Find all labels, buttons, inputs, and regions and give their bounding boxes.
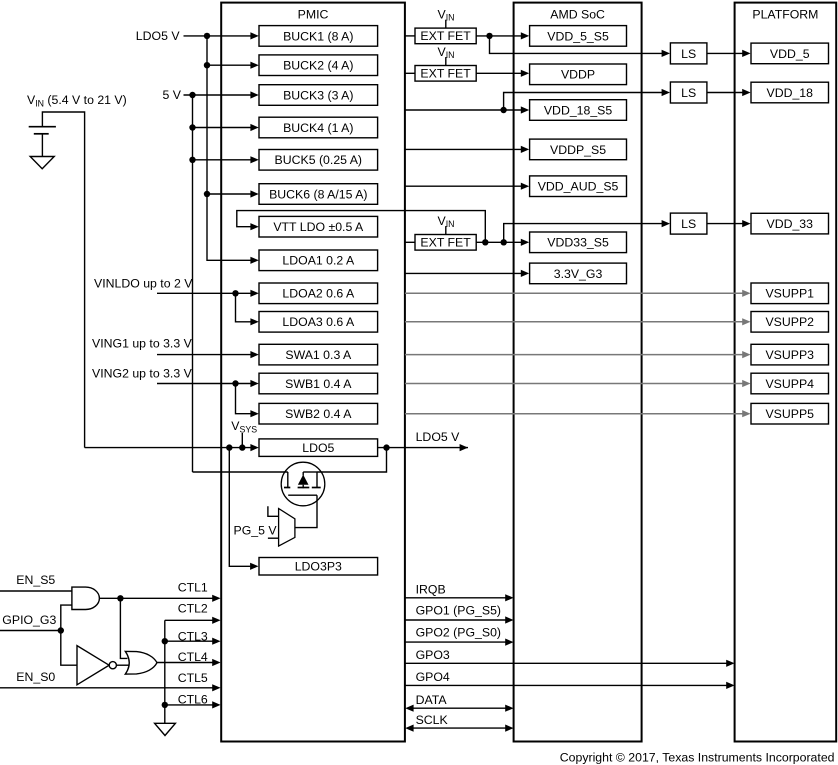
wire DATA bidirectional bbox=[413, 707, 505, 709]
regulator BUCK5 bbox=[259, 150, 378, 171]
svg-text:IRQB: IRQB bbox=[416, 583, 446, 597]
rail VDD_33 bbox=[751, 213, 829, 234]
wire rail to CTL6 bbox=[165, 704, 213, 706]
svg-text:VTT LDO ±0.5 A: VTT LDO ±0.5 A bbox=[273, 220, 364, 234]
wire EN_S0 to CTL5 bbox=[0, 687, 213, 689]
svg-text:BUCK2 (4 A): BUCK2 (4 A) bbox=[283, 59, 353, 73]
junction AND output bbox=[117, 595, 123, 601]
arrow DATA into PMIC bbox=[405, 705, 413, 712]
junction rail at CTL6 bbox=[162, 702, 168, 708]
wire OR output to CTL4 bbox=[157, 662, 213, 664]
wire VINLDO branch to LDOA3 bbox=[236, 293, 251, 322]
arrow into BUCK5 bbox=[250, 156, 258, 163]
regulator BUCK6 bbox=[259, 184, 378, 205]
wire VSUPP4 (gray) bbox=[405, 383, 743, 385]
battery negative plate bbox=[34, 133, 49, 135]
wire bus to BUCK5 bbox=[193, 159, 251, 161]
svg-text:VINLDO up to 2 V: VINLDO up to 2 V bbox=[94, 277, 193, 291]
svg-text:CTL4: CTL4 bbox=[178, 650, 208, 664]
wire VINLDO to LDOA2 bbox=[157, 292, 251, 294]
arrow into VSUPP2 (gray) bbox=[742, 318, 750, 325]
junction LDO5V bus at BUCK6 bbox=[204, 191, 210, 197]
svg-text:VSUPP2: VSUPP2 bbox=[765, 315, 814, 329]
wire GPO1 to AMD SoC bbox=[405, 619, 506, 621]
regulator LDOA2 bbox=[259, 283, 378, 304]
arrow into LDO3P3 bbox=[250, 563, 258, 570]
wire VIN stub to EXT FET 2 bbox=[445, 57, 447, 65]
junction VDD_18 branch bbox=[500, 107, 506, 113]
battery positive plate bbox=[29, 126, 56, 128]
svg-text:VDDP: VDDP bbox=[561, 68, 595, 82]
regulator LDO3P3 bbox=[259, 558, 378, 576]
arrow into LDO5 bbox=[250, 444, 258, 451]
svg-text:GPIO_G3: GPIO_G3 bbox=[2, 613, 56, 627]
arrow into VTT LDO bbox=[250, 223, 258, 230]
arrow into VSUPP3 (gray) bbox=[742, 351, 750, 358]
wire VSYS stub bbox=[241, 433, 243, 448]
wire VIN stub to EXT FET 3 bbox=[445, 226, 447, 234]
svg-text:SCLK: SCLK bbox=[416, 713, 449, 727]
wire GPIO_G3 input bbox=[0, 630, 61, 632]
junction EXT FET 3 output (VTT loop) bbox=[482, 239, 488, 245]
junction LDO5V bus top bbox=[204, 33, 210, 39]
wire VING1 to SWA1 bbox=[157, 354, 251, 356]
wire LS1 to VDD_5 bbox=[707, 52, 743, 54]
svg-text:LDOA3 0.6 A: LDOA3 0.6 A bbox=[282, 315, 355, 329]
arrow into VDD_33 bbox=[742, 220, 750, 227]
svg-text:PMIC: PMIC bbox=[298, 8, 329, 22]
arrow into VDD33_S5 bbox=[521, 239, 529, 246]
svg-text:BUCK4 (1 A): BUCK4 (1 A) bbox=[283, 121, 353, 135]
svg-text:VDD_5: VDD_5 bbox=[770, 47, 810, 61]
junction 5V bus at BUCK4 bbox=[189, 124, 195, 130]
wire VSUPP1 (gray) bbox=[405, 292, 743, 294]
svg-text:VDD_AUD_S5: VDD_AUD_S5 bbox=[538, 180, 619, 194]
arrow into LS2 bbox=[662, 89, 670, 96]
transistor Q1 body-diode arrow bbox=[298, 475, 309, 485]
svg-text:SWA1 0.3 A: SWA1 0.3 A bbox=[285, 348, 352, 362]
wire VSUPP3 (gray) bbox=[405, 354, 743, 356]
arrow GPO4 into PLATFORM bbox=[726, 682, 734, 689]
junction VINLDO branch bbox=[232, 290, 238, 296]
regulator VTT bbox=[259, 216, 378, 237]
svg-text:SWB2 0.4 A: SWB2 0.4 A bbox=[285, 407, 352, 421]
svg-text:LDO5 V: LDO5 V bbox=[136, 29, 181, 43]
level-shifter LS2 bbox=[670, 82, 707, 103]
regulator BUCK3 bbox=[259, 85, 378, 106]
wire VDD_AUD_S5 row bbox=[405, 185, 521, 187]
arrow DATA into AMD SoC bbox=[505, 705, 513, 712]
wire VSUPP2 (gray) bbox=[405, 321, 743, 323]
svg-text:CTL6: CTL6 bbox=[178, 692, 208, 706]
wire EXT FET 1 to VDD_5_S5 bbox=[476, 35, 521, 37]
junction LDO5 row to LDO3P3 feed bbox=[226, 444, 232, 450]
arrow CTL5 into PMIC bbox=[212, 684, 220, 691]
wire IRQB to AMD SoC bbox=[405, 597, 506, 599]
rail VDD_18_S5 bbox=[530, 100, 627, 121]
wire 3.3V_G3 row bbox=[405, 272, 521, 274]
svg-text:VSUPP5: VSUPP5 bbox=[765, 407, 814, 421]
wire SCLK bidirectional bbox=[413, 727, 505, 729]
svg-text:CTL5: CTL5 bbox=[178, 671, 208, 685]
junction EXT FET 3 output (LS3) bbox=[501, 239, 507, 245]
svg-text:GPO2 (PG_S0): GPO2 (PG_S0) bbox=[416, 626, 501, 640]
rail VDD_5 bbox=[751, 43, 829, 64]
arrow CTL4 into PMIC bbox=[212, 659, 220, 666]
wire EXT FET 2 to VDDP bbox=[476, 72, 521, 74]
regulator BUCK4 bbox=[259, 117, 378, 138]
wire LS2 to VDD_18 bbox=[707, 92, 743, 94]
wire bus to BUCK4 bbox=[193, 127, 251, 129]
wire rail to CTL2 bbox=[165, 619, 213, 621]
driver U1 PG_5V trapezoid bbox=[279, 509, 295, 547]
wire VIN feed into LDO5 bbox=[85, 447, 251, 449]
svg-text:GPO1 (PG_S5): GPO1 (PG_S5) bbox=[416, 604, 501, 618]
rail VDDP bbox=[530, 64, 627, 85]
not-gate U3 bubble bbox=[109, 662, 116, 669]
wire branch to LS2 bbox=[504, 93, 662, 111]
svg-text:LS: LS bbox=[681, 86, 696, 100]
arrow into LDOA1 bbox=[250, 257, 258, 264]
ground (VIN source) bbox=[30, 157, 54, 169]
arrow GPO2 into AMD SoC bbox=[505, 639, 513, 646]
wire GPIO_G3 to NOT gate bbox=[61, 631, 77, 666]
arrow into VDD_18_S5 bbox=[521, 106, 529, 113]
not-gate U3 bbox=[77, 646, 109, 685]
svg-text:LDO5: LDO5 bbox=[302, 441, 334, 455]
wire LDO5V vertical bus x=207 bbox=[207, 36, 251, 260]
svg-text:VDD_5_S5: VDD_5_S5 bbox=[547, 29, 609, 43]
svg-text:Copyright © 2017, Texas Instru: Copyright © 2017, Texas Instruments Inco… bbox=[560, 751, 835, 765]
svg-text:BUCK6 (8 A/15 A): BUCK6 (8 A/15 A) bbox=[269, 187, 367, 201]
wire battery to ground bbox=[41, 134, 43, 157]
wire GPO4 to PLATFORM bbox=[405, 684, 727, 686]
svg-text:VDD_33: VDD_33 bbox=[767, 217, 814, 231]
regulator LDOA3 bbox=[259, 312, 378, 333]
arrow CTL6 into PMIC bbox=[212, 701, 220, 708]
rail 3.3V_G3 bbox=[530, 263, 627, 284]
arrow GPO3 into PLATFORM bbox=[726, 660, 734, 667]
svg-text:SWB1 0.4 A: SWB1 0.4 A bbox=[285, 377, 352, 391]
transistor Q1 channel segment right bbox=[312, 487, 321, 489]
arrow into VSUPP4 (gray) bbox=[742, 380, 750, 387]
wire LDO5 V to BUCK1 bbox=[184, 35, 251, 37]
wire rail to CTL3 bbox=[165, 640, 213, 642]
svg-text:GPO4: GPO4 bbox=[416, 670, 450, 684]
rail VDDP_S5 bbox=[530, 139, 627, 160]
wire VIN source to vertical feed bbox=[42, 112, 84, 448]
svg-text:BUCK3 (3 A): BUCK3 (3 A) bbox=[283, 88, 353, 102]
wire bus to BUCK6 bbox=[207, 193, 251, 195]
arrow CTL1 into PMIC bbox=[212, 595, 220, 602]
arrow into VSUPP5 (gray) bbox=[742, 410, 750, 417]
arrow into VDDP bbox=[521, 70, 529, 77]
arrow into 3.3V_G3 bbox=[521, 270, 529, 277]
junction VSYS stub bbox=[239, 444, 245, 450]
transistor Q1 left contact bar bbox=[287, 472, 289, 488]
svg-text:LDOA2 0.6 A: LDOA2 0.6 A bbox=[282, 287, 355, 301]
arrow CTL3 into PMIC bbox=[212, 638, 220, 645]
and-gate U2 bbox=[72, 587, 100, 609]
arrow into LS3 bbox=[662, 220, 670, 227]
arrow into LS1 bbox=[662, 50, 670, 57]
transistor Q1 channel segment middle bbox=[298, 487, 310, 489]
svg-text:LDO5 V: LDO5 V bbox=[416, 430, 461, 444]
transistor Q1 channel segment left bbox=[284, 487, 290, 489]
wire EN_S5 to AND gate bbox=[0, 590, 72, 592]
wire pulldown rail x=164.8 bbox=[164, 620, 166, 723]
svg-text:VDD33_S5: VDD33_S5 bbox=[547, 236, 609, 250]
wire pass FET to 5V bus bbox=[193, 471, 288, 473]
svg-text:CTL2: CTL2 bbox=[178, 602, 208, 616]
regulator BUCK1 bbox=[259, 26, 378, 47]
svg-text:GPO3: GPO3 bbox=[416, 648, 450, 662]
rail VSUPP3 bbox=[751, 344, 829, 365]
block AMD SoC bbox=[514, 3, 642, 742]
arrow CTL2 into PMIC bbox=[212, 617, 220, 624]
svg-text:VDD_18: VDD_18 bbox=[767, 86, 814, 100]
arrow into VDDP_S5 bbox=[521, 146, 529, 153]
transistor Q1 body circle bbox=[281, 462, 325, 506]
rail VDD_5_S5 bbox=[530, 26, 627, 47]
svg-text:LS: LS bbox=[681, 217, 696, 231]
transistor Q1 top wire segment bbox=[303, 471, 317, 473]
svg-text:EN_S0: EN_S0 bbox=[16, 670, 55, 684]
rail VSUPP4 bbox=[751, 373, 829, 394]
wire VING2 branch to SWB2 bbox=[236, 384, 251, 414]
wire VING2 to SWB1 bbox=[157, 383, 251, 385]
rail VSUPP1 bbox=[751, 283, 829, 304]
wire EXT FET 3 to VDD33_S5 bbox=[476, 241, 521, 243]
regulator SWB1 bbox=[259, 373, 378, 394]
or-gate U4 bbox=[125, 651, 157, 674]
svg-text:CTL3: CTL3 bbox=[178, 629, 208, 643]
arrow into SWA1 bbox=[250, 351, 258, 358]
arrow into VDD_5_S5 bbox=[521, 32, 529, 39]
svg-text:PLATFORM: PLATFORM bbox=[752, 8, 818, 22]
arrow into BUCK6 bbox=[250, 190, 258, 197]
block PLATFORM bbox=[735, 3, 837, 742]
wire branch to LS1 bbox=[490, 36, 663, 54]
arrow into BUCK2 bbox=[250, 62, 258, 69]
ext-fet box EXT FET 1 bbox=[415, 28, 476, 44]
svg-text:EXT FET: EXT FET bbox=[420, 29, 471, 43]
wire VDDP_S5 row bbox=[405, 148, 521, 150]
arrow into VSUPP1 (gray) bbox=[742, 290, 750, 297]
arrow into VDD_AUD_S5 bbox=[521, 183, 529, 190]
svg-text:LDO3P3: LDO3P3 bbox=[295, 560, 342, 574]
transistor Q1 gate bar bbox=[288, 494, 317, 496]
junction LDO5V bus at BUCK2 bbox=[204, 62, 210, 68]
arrow IRQB into AMD SoC bbox=[505, 594, 513, 601]
arrow into BUCK3 bbox=[250, 91, 258, 98]
arrow into BUCK1 bbox=[250, 32, 258, 39]
wire AND output to OR gate bbox=[120, 598, 127, 658]
wire LS3 to VDD_33 bbox=[707, 223, 743, 225]
arrow into LDOA3 bbox=[250, 318, 258, 325]
svg-text:5 V: 5 V bbox=[163, 88, 182, 102]
regulator BUCK2 bbox=[259, 55, 378, 76]
wire 5 V to BUCK3 bbox=[184, 94, 251, 96]
svg-text:VING1 up to 3.3 V: VING1 up to 3.3 V bbox=[92, 336, 193, 350]
wire GPO3 to PLATFORM bbox=[405, 662, 727, 664]
svg-text:VSUPP4: VSUPP4 bbox=[765, 377, 814, 391]
wire VIN stub to EXT FET 1 bbox=[445, 20, 447, 28]
svg-text:BUCK5 (0.25 A): BUCK5 (0.25 A) bbox=[275, 153, 362, 167]
level-shifter LS1 bbox=[670, 43, 707, 64]
wire branch to LS3 bbox=[504, 224, 662, 243]
arrow SCLK into AMD SoC bbox=[505, 725, 513, 732]
ext-fet box EXT FET 2 bbox=[415, 66, 476, 82]
arrow GPO1 into AMD SoC bbox=[505, 616, 513, 623]
junction 5V bus at BUCK5 bbox=[189, 157, 195, 163]
block PMIC bbox=[221, 3, 405, 742]
junction LDO5 output branch bbox=[383, 444, 389, 450]
svg-text:EXT FET: EXT FET bbox=[420, 236, 471, 250]
arrow into SWB1 bbox=[250, 380, 258, 387]
svg-text:VING2 up to 3.3 V: VING2 up to 3.3 V bbox=[92, 367, 193, 381]
wire 5V vertical bus x=192.5 bbox=[192, 95, 194, 472]
rail VDD_AUD_S5 bbox=[530, 176, 627, 197]
regulator LDO5 bbox=[259, 439, 378, 457]
wire BUCK2 row to EXT FET 2 bbox=[405, 72, 415, 74]
svg-text:LS: LS bbox=[681, 47, 696, 61]
regulator SWB2 bbox=[259, 403, 378, 424]
arrow into BUCK4 bbox=[250, 124, 258, 131]
wire feed to LDO3P3 bbox=[229, 448, 250, 567]
svg-text:PG_5 V: PG_5 V bbox=[234, 524, 278, 538]
wire LDO5 output to LDO5 V bbox=[378, 447, 468, 449]
junction VING2 branch bbox=[232, 380, 238, 386]
svg-text:VDDP_S5: VDDP_S5 bbox=[550, 143, 606, 157]
svg-text:BUCK1 (8 A): BUCK1 (8 A) bbox=[283, 29, 353, 43]
ext-fet box EXT FET 3 bbox=[415, 235, 476, 251]
wire GPO2 to AMD SoC bbox=[405, 641, 506, 643]
ground (CTL pulldown) bbox=[155, 723, 176, 735]
wire VSUPP5 (gray) bbox=[405, 413, 743, 415]
svg-text:CTL1: CTL1 bbox=[178, 581, 208, 595]
wire Q1 gate to PG_5V driver bbox=[295, 495, 317, 527]
svg-text:AMD SoC: AMD SoC bbox=[550, 8, 605, 22]
transistor Q1 right contact bar bbox=[316, 472, 318, 488]
regulator SWA1 bbox=[259, 344, 378, 365]
arrow SCLK into PMIC bbox=[405, 725, 413, 732]
level-shifter LS3 bbox=[670, 213, 707, 234]
junction 5V bus top bbox=[189, 92, 195, 98]
arrow into VDD_5 bbox=[742, 50, 750, 57]
wire NOT output to OR gate bbox=[116, 664, 128, 666]
wire VTT LDO input loop bbox=[237, 211, 485, 243]
wire GPIO_G3 to AND gate bbox=[61, 605, 72, 630]
wire VDD_18 row to VDD_18_S5 bbox=[405, 109, 521, 111]
svg-text:EXT FET: EXT FET bbox=[420, 67, 471, 81]
svg-text:3.3V_G3: 3.3V_G3 bbox=[554, 267, 603, 281]
wire bus to BUCK2 bbox=[207, 64, 251, 66]
svg-text:LDOA1 0.2 A: LDOA1 0.2 A bbox=[282, 254, 355, 268]
wire driver input stub bbox=[268, 537, 279, 539]
rail VSUPP5 bbox=[751, 403, 829, 424]
wire VTT row to EXT FET 3 bbox=[405, 241, 415, 243]
rail VSUPP2 bbox=[751, 312, 829, 333]
wire AND output to CTL1 bbox=[99, 597, 212, 599]
wire BUCK1 row to EXT FET 1 bbox=[405, 35, 415, 37]
svg-text:DATA: DATA bbox=[416, 693, 448, 707]
svg-text:VSUPP3: VSUPP3 bbox=[765, 348, 814, 362]
arrow LDO5 V output bbox=[460, 444, 468, 451]
rail VDD_18 bbox=[751, 82, 829, 103]
svg-text:VDD_18_S5: VDD_18_S5 bbox=[544, 103, 613, 117]
arrow into LDOA2 bbox=[250, 290, 258, 297]
regulator LDOA1 bbox=[259, 250, 378, 271]
arrow into SWB2 bbox=[250, 410, 258, 417]
arrow into VDD_18 bbox=[742, 89, 750, 96]
wire driver enable stub bbox=[268, 506, 279, 516]
junction rail at CTL3 bbox=[162, 638, 168, 644]
svg-text:VSUPP1: VSUPP1 bbox=[765, 287, 814, 301]
junction GPIO_G3 bbox=[58, 627, 64, 633]
rail VDD33_S5 bbox=[530, 232, 627, 253]
junction EXT FET 1 output bbox=[486, 33, 492, 39]
wire LDO5 output loop to pass FET bbox=[317, 448, 387, 472]
svg-text:EN_S5: EN_S5 bbox=[16, 573, 55, 587]
